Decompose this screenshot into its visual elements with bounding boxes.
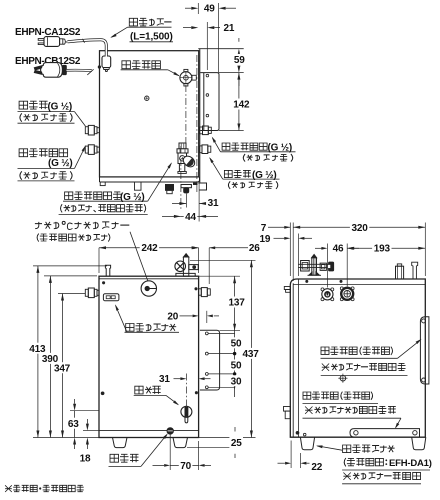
dimension 347 xyxy=(62,294,64,438)
dimension 63 xyxy=(74,411,76,438)
operation switch 運転スイッチ xyxy=(103,294,119,301)
svg-text:22: 22 xyxy=(311,462,322,473)
side left port profile xyxy=(284,287,290,290)
front left port xyxy=(85,289,88,296)
label キャップ付 2 xyxy=(20,171,72,179)
plug EHPN-CB12S2 collar xyxy=(62,65,66,74)
dimension 22 xyxy=(290,441,292,469)
ext 46 a xyxy=(326,244,328,288)
svg-text:70: 70 xyxy=(180,461,191,472)
ext 63 xyxy=(70,410,99,412)
label 運転スイッチ xyxy=(126,324,177,332)
svg-text:437: 437 xyxy=(243,349,260,360)
bottom rail 固定金具 xyxy=(350,429,420,437)
leader to wall bracket xyxy=(398,340,421,358)
dimension 390 xyxy=(49,276,51,438)
front view outline xyxy=(99,276,199,437)
dimension 320 xyxy=(293,226,425,228)
front left foot xyxy=(113,438,128,448)
side view top screws xyxy=(306,280,308,282)
dimension 20 xyxy=(206,311,208,323)
leader to dial xyxy=(130,232,148,281)
label 同圧給水口 xyxy=(19,149,68,157)
top view tank outline xyxy=(100,51,199,177)
ext 437 bottom xyxy=(199,437,256,439)
side left foot xyxy=(300,437,314,450)
svg-text:EFH-DA1): EFH-DA1) xyxy=(389,458,432,469)
label 逃し弁 xyxy=(135,386,161,394)
strip port 出湯口 xyxy=(199,146,202,153)
panel bottom extension xyxy=(219,130,244,132)
dimension 437 xyxy=(250,260,252,437)
label 出湯口(G1/2) right xyxy=(224,170,250,177)
top pipe on front view xyxy=(105,265,110,276)
label 固定金具(同梱品) upper xyxy=(321,347,393,355)
panel holes xyxy=(206,74,209,77)
power cord xyxy=(68,40,107,57)
front right port xyxy=(199,289,202,295)
temperature dial xyxy=(141,281,156,296)
strip port 同圧給水口 xyxy=(199,127,202,134)
ext 46 b xyxy=(346,244,348,287)
wall bracket slot xyxy=(420,317,429,384)
top view small foot xyxy=(135,182,142,190)
dimension 25 xyxy=(234,438,237,445)
side view bezel lines xyxy=(292,283,294,437)
dimension 49 xyxy=(197,3,199,14)
strip view left edge xyxy=(199,49,201,183)
svg-text:EHPN-CA12S2: EHPN-CA12S2 xyxy=(15,27,81,38)
dimension 137 xyxy=(234,276,236,331)
label 固定金具(同梱品) lower xyxy=(303,392,373,400)
expansion port 膨張水口 on top view xyxy=(180,72,192,84)
screw on top face xyxy=(145,96,149,100)
label キャップ付 right1 xyxy=(243,154,292,162)
strip view centerline xyxy=(196,55,198,194)
svg-text:347: 347 xyxy=(54,363,71,374)
expansion port side profile xyxy=(396,266,404,279)
svg-text:(G ½): (G ½) xyxy=(48,101,73,112)
svg-text:18: 18 xyxy=(80,454,91,465)
panel top extension xyxy=(219,72,244,74)
dimension 44 (top view) xyxy=(174,215,181,218)
svg-text:31: 31 xyxy=(208,198,219,209)
ext 137 top xyxy=(199,275,240,277)
side knob 1 xyxy=(322,289,333,300)
label カウンター下設置時 xyxy=(322,363,406,371)
ext top 390 xyxy=(44,275,97,277)
dimension 242 xyxy=(98,248,100,273)
plug EHPN-CA12S2 xyxy=(38,39,44,45)
svg-text:19: 19 xyxy=(260,234,271,245)
front view screws xyxy=(102,282,104,284)
ext 70 left xyxy=(169,435,171,471)
svg-text:193: 193 xyxy=(374,244,391,255)
dimension 26 xyxy=(208,248,210,284)
strip view mount panel xyxy=(200,73,219,131)
svg-text:50: 50 xyxy=(231,361,242,372)
dimension 70 xyxy=(170,464,198,466)
leader to switch xyxy=(116,306,128,333)
leader 出湯口 xyxy=(75,112,86,127)
power cord grommet xyxy=(102,56,111,68)
label キャップ付 right2 xyxy=(228,181,277,189)
small pipe side profile xyxy=(412,262,418,279)
relief valve centerline xyxy=(185,374,187,409)
leader to side foot xyxy=(317,446,342,450)
ext 19 xyxy=(297,234,299,277)
ext 25 bottom xyxy=(187,447,240,449)
label 排水口 xyxy=(110,454,139,462)
bracket hole leader lines xyxy=(208,332,234,334)
front right foot xyxy=(173,438,188,448)
top valve assembly on front view xyxy=(183,257,188,276)
svg-text:59: 59 xyxy=(234,55,245,66)
label カウンター設置時 xyxy=(343,472,420,480)
svg-text:142: 142 xyxy=(233,100,250,111)
plug EHPN-CB12S2 prongs xyxy=(34,66,42,70)
label ちょうどいいダイヤル xyxy=(35,221,129,229)
relief valve 逃し弁 xyxy=(181,406,192,417)
svg-text:(L=1,500): (L=1,500) xyxy=(130,32,173,43)
ext 437 top xyxy=(190,259,256,261)
side view top band xyxy=(293,284,425,286)
label 膨張水口 xyxy=(122,61,161,69)
rotary inlet valve 回転式給水口 (top view) xyxy=(179,143,186,149)
svg-text:31: 31 xyxy=(159,374,170,385)
screw dot at grommet xyxy=(98,65,101,68)
svg-text:26: 26 xyxy=(249,243,260,254)
extension line right edge of top view xyxy=(198,183,200,222)
svg-text:21: 21 xyxy=(224,23,235,34)
leader 同圧給水口 xyxy=(75,147,86,169)
dimension 19 xyxy=(284,237,290,240)
svg-text:137: 137 xyxy=(229,298,246,309)
dimension 142 xyxy=(237,73,240,80)
leader to bottom rail xyxy=(396,418,401,427)
top view left step xyxy=(100,182,105,186)
left port 同圧給水口 (top view) xyxy=(85,146,88,153)
left port 出湯口 (top view) xyxy=(85,127,88,134)
dimension 59 xyxy=(237,49,240,56)
cord of plug CB xyxy=(66,69,91,72)
svg-text:49: 49 xyxy=(204,4,215,15)
crosshair fixing point xyxy=(340,375,346,381)
label 回転式給水口(G1/2) xyxy=(65,192,122,200)
svg-text:25: 25 xyxy=(231,438,242,449)
leader to power cord xyxy=(112,27,128,37)
strip view bottom foot xyxy=(198,183,206,190)
side right foot xyxy=(412,437,426,450)
strip view top edge xyxy=(198,48,243,50)
label 固定脚セット xyxy=(343,445,395,453)
svg-text:50: 50 xyxy=(231,338,242,349)
label 別売部材 EFH-DA1 xyxy=(344,458,387,466)
side drain profile xyxy=(284,407,291,412)
ext 70 right xyxy=(198,441,200,470)
front view bottom seam xyxy=(99,430,199,432)
leader 膨張水口 xyxy=(168,70,179,76)
svg-text:30: 30 xyxy=(231,376,242,387)
inlet flange below top view xyxy=(181,185,191,188)
svg-text:20: 20 xyxy=(167,311,178,322)
extension line drain nut xyxy=(185,194,187,208)
label キャップ付 1 xyxy=(20,113,72,121)
dimension 21 xyxy=(206,22,208,70)
mounting bracket right of front view xyxy=(200,330,220,390)
ext 7 xyxy=(292,223,294,282)
svg-text:44: 44 xyxy=(185,212,196,223)
top view front band xyxy=(100,177,200,182)
svg-text:7: 7 xyxy=(261,223,267,234)
dimension 193 xyxy=(347,247,425,249)
label 同圧給水口(G1/2) right xyxy=(222,143,267,150)
svg-text:46: 46 xyxy=(333,244,344,255)
footnote 減圧弁逆止弁内蔵 xyxy=(5,485,84,492)
bracket holes xyxy=(205,332,208,335)
plug EHPN-CB12S2 body xyxy=(41,63,63,78)
dimension 7 xyxy=(268,226,290,228)
ext 347 xyxy=(58,293,85,295)
svg-text:242: 242 xyxy=(141,243,158,254)
leader to 出湯口 strip xyxy=(210,158,223,179)
label フィルタ逆止弁内蔵 xyxy=(61,204,146,212)
svg-text:63: 63 xyxy=(68,419,79,430)
side view top cluster xyxy=(299,263,335,265)
leader to drain xyxy=(141,435,167,467)
svg-text:(G ½): (G ½) xyxy=(252,170,277,181)
dimension 46 xyxy=(321,247,327,250)
dimension 413 xyxy=(37,266,39,438)
front view top band xyxy=(99,278,199,280)
ext 18 xyxy=(83,430,99,432)
leader 回転式給水口 xyxy=(148,163,172,201)
leader to 同圧給水口 strip xyxy=(212,138,220,152)
expansion port centerline xyxy=(185,85,187,143)
label キャビネット内設置時 xyxy=(305,406,396,414)
drain port 排水口 xyxy=(167,428,173,434)
svg-text:(G ½): (G ½) xyxy=(48,158,73,169)
dimension 31 (top view) xyxy=(179,202,186,205)
label 温度調節ダイヤル xyxy=(37,234,110,242)
ext top 413 xyxy=(33,265,107,267)
drain fitting below top view xyxy=(166,185,174,191)
dimension 31 front xyxy=(180,377,186,380)
dimension 50 50 30 chain xyxy=(234,331,236,390)
ext 320 right xyxy=(424,223,426,277)
side view outline xyxy=(290,279,425,437)
svg-text:320: 320 xyxy=(352,223,369,234)
band foot pad xyxy=(193,183,197,185)
label 出湯口(G1/2) xyxy=(19,101,47,109)
leader to relief valve xyxy=(166,395,178,404)
ext 137 bottom xyxy=(220,330,240,332)
ext 320 left xyxy=(289,223,291,277)
centerline inlet valve xyxy=(180,146,182,210)
label 電源コード xyxy=(129,18,171,26)
ext bottom xyxy=(33,437,99,439)
side knob 2 xyxy=(341,288,353,300)
dimension 18 xyxy=(86,424,89,431)
